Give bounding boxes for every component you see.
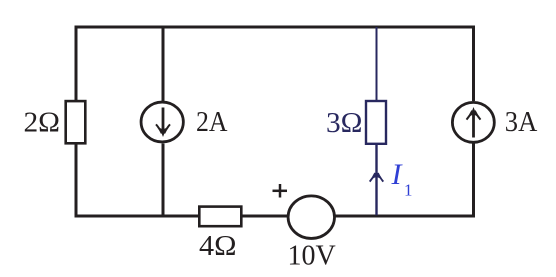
svg-text:2A: 2A [196, 107, 228, 138]
wire branch 3A lower [472, 144, 475, 218]
svg-text:I: I [391, 158, 404, 191]
wire branch 3Ω upper (blue) [376, 27, 378, 100]
voltage source 10V circle [288, 196, 334, 239]
svg-text:10V: 10V [288, 241, 336, 272]
wire branch 2A upper [162, 27, 165, 101]
wire left vertical upper [75, 26, 78, 101]
svg-text:4Ω: 4Ω [199, 231, 237, 262]
svg-text:2Ω: 2Ω [24, 108, 61, 139]
wire branch 3A upper [472, 26, 475, 102]
wire bottom [75, 215, 475, 218]
svg-text:3Ω: 3Ω [326, 108, 363, 139]
wire top [76, 26, 474, 29]
resistor 2Ω body [66, 101, 86, 143]
resistor 4Ω body [199, 207, 241, 227]
label I1 [391, 158, 413, 199]
wire left vertical lower [75, 145, 78, 217]
current source 2A circle [141, 102, 183, 142]
current source 2A arrow (down) [156, 108, 170, 138]
svg-text:1: 1 [404, 181, 413, 200]
current arrow I1 (up, on blue wire) [370, 170, 384, 182]
current source 3A arrow (up) [467, 107, 481, 138]
current source 3A circle [452, 102, 494, 142]
resistor 3Ω body (blue) [366, 101, 386, 144]
svg-text:3A: 3A [505, 107, 538, 138]
plus polarity mark [273, 184, 288, 198]
wire branch 2A lower [162, 144, 165, 217]
wire branch 3Ω lower (blue) [375, 145, 377, 216]
